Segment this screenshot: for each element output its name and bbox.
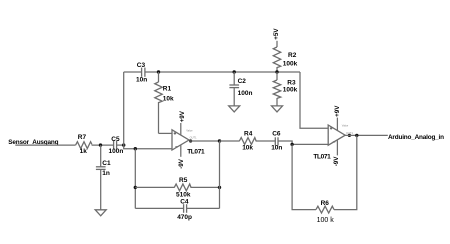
wire to non-inverting input [159,132,173,134]
node junction C3 tap [122,143,125,146]
svg-text:100k: 100k [283,61,298,68]
ground [229,106,240,112]
svg-text:+9V: +9V [334,105,341,117]
op-amp U2 TL071 [313,118,353,161]
svg-text:1k: 1k [80,148,88,155]
wire [92,144,114,146]
svg-text:TL071: TL071 [313,154,331,161]
wire C4 bottom left [135,207,183,209]
wire bias corner to U2 [300,72,328,128]
node junction U2 feedback tap [290,143,293,146]
capacitor C5 [109,136,124,155]
capacitor C3 [136,62,147,84]
svg-text:TL071: TL071 [187,148,205,155]
node junction R1 [157,70,160,73]
svg-text:R7: R7 [78,134,87,141]
svg-text:R6: R6 [321,200,330,207]
svg-text:10k: 10k [242,144,253,151]
wire C4 bottom right [187,207,220,209]
svg-text:10k: 10k [163,96,174,103]
svg-text:R4: R4 [244,131,253,138]
svg-text:Value: Value [186,129,193,133]
node U2 output pin [348,134,351,137]
resistor R1 [155,72,174,133]
wire vertical to C3 loop [123,72,125,145]
node junction output feedback tap [218,139,221,142]
wire top bias line left [124,71,142,73]
resistor R2 [273,47,297,72]
svg-text:1n: 1n [102,170,110,177]
ground [272,106,283,112]
capacitor C2 [229,72,252,106]
svg-text:C5: C5 [111,136,120,143]
capacitor C6 [271,131,282,152]
svg-text:OUT1: OUT1 [190,136,197,140]
svg-text:10n: 10n [271,145,282,152]
svg-text:Arduino_Analog_in: Arduino_Analog_in [388,134,444,141]
resistor R7 [76,134,92,155]
svg-text:C1: C1 [102,160,111,167]
wire R5 right lead [191,186,220,188]
svg-text:C3: C3 [137,62,146,69]
svg-text:R1: R1 [163,85,172,92]
wire feedback left vertical [134,149,136,209]
wire +5V to R2 [276,41,278,47]
svg-text:C4: C4 [180,199,189,206]
svg-text:+9V: +9V [179,110,186,122]
svg-text:C2: C2 [238,78,247,85]
resistor R5 [174,177,191,198]
wire [117,144,124,146]
ground [95,210,106,216]
wire [256,140,275,142]
wire R6 right to output [334,135,357,209]
resistor R3 [273,72,297,106]
wire top bias line right [145,71,300,73]
svg-text:R3: R3 [287,79,296,86]
resistor R4 [239,131,256,152]
wire stage2 [220,140,240,142]
svg-text:R2: R2 [288,52,297,59]
svg-text:+5V: +5V [273,28,280,40]
svg-text:100k: 100k [283,86,298,93]
op-amp U1 TL071 [172,123,205,157]
wire U1 output [189,140,220,142]
resistor R6 [316,200,334,224]
svg-text:Value: Value [342,124,349,128]
wire jog to inverting input [124,145,172,149]
node U1 output pin [189,139,192,142]
svg-text:R5: R5 [179,177,188,184]
node junction feedback tap [134,147,137,150]
capacitor C1 [96,145,111,210]
svg-text:100 k: 100 k [317,217,335,224]
node junction output R6 tap [355,134,358,137]
svg-text:-9V: -9V [178,158,185,169]
node junction C2 [233,70,236,73]
node junction R2 R3 [275,70,278,73]
svg-text:100n: 100n [109,148,124,155]
wire feedback right vertical [219,141,221,208]
wire R5 left lead [135,186,174,188]
wire [15,144,75,146]
wire U2 output [345,134,388,136]
svg-text:10n: 10n [136,76,147,83]
wire jog to U2 inverting input [278,141,328,144]
node A junction [99,143,102,146]
capacitor C4 [177,199,192,222]
wire R6 feedback loop [292,144,316,209]
svg-text:-9V: -9V [333,156,340,167]
node junction R5 right [218,186,221,189]
svg-text:470p: 470p [177,214,192,221]
svg-text:C6: C6 [272,131,281,138]
node junction R5 left [134,186,137,189]
svg-text:510k: 510k [176,191,191,198]
svg-text:100n: 100n [238,90,253,97]
